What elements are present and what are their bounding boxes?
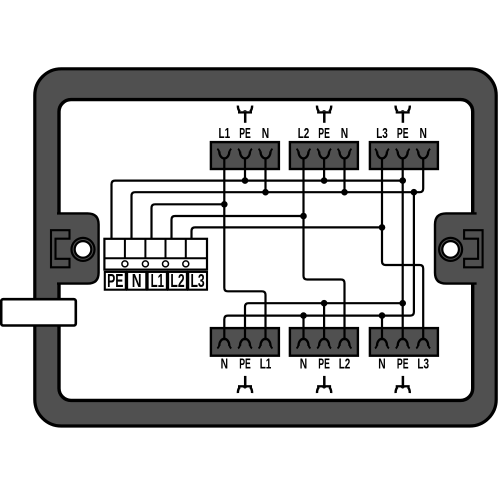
outgoing feeder symbol above block2 bbox=[317, 106, 331, 123]
wire PE stub bottom block2 bbox=[323, 303, 325, 340]
svg-text:L2: L2 bbox=[170, 271, 184, 291]
wire N stub top block1 bbox=[264, 159, 266, 193]
top terminal block 2 (L2 PE N) bbox=[290, 142, 358, 169]
junction L1 bbox=[221, 201, 228, 208]
label bottom block2 N PE L2 bbox=[300, 356, 351, 373]
wire L1 net: riser from input L1 bbox=[152, 204, 225, 240]
outgoing feeder symbol below bottom block1 bbox=[238, 376, 252, 393]
top terminal block 1 (L1 PE N) bbox=[211, 142, 279, 169]
wire PE net: riser from input PE up and across (PE bus) bbox=[112, 181, 403, 240]
outgoing feeder symbol below bottom block3 bbox=[396, 376, 410, 393]
svg-text:L2: L2 bbox=[298, 125, 310, 142]
svg-text:PE: PE bbox=[318, 356, 330, 373]
svg-text:N: N bbox=[378, 356, 385, 373]
label bottom block1 N PE L1 bbox=[221, 356, 272, 373]
wire L2 net: riser from input L2 bbox=[172, 216, 304, 240]
junction PE lower bus block3 bbox=[399, 300, 406, 307]
wire L3 top block3 to bottom block3 with jog bbox=[382, 159, 423, 341]
svg-text:N: N bbox=[420, 125, 427, 142]
wire L3 net: riser from input L3 bbox=[192, 227, 383, 240]
wire L2 top block2 to bottom block2 with jog bbox=[304, 159, 345, 341]
junction N lower bus block3 bbox=[379, 312, 386, 319]
top terminal block 3 (L3 PE N) bbox=[370, 142, 438, 169]
wire N stub bottom block2 bbox=[302, 316, 304, 341]
svg-text:L2: L2 bbox=[339, 356, 351, 373]
svg-text:PE: PE bbox=[397, 356, 409, 373]
input block test ports bbox=[122, 261, 189, 267]
junction N lower bus block2 bbox=[300, 312, 307, 319]
bottom terminal block 2 (N PE L2) bbox=[290, 328, 358, 356]
label top block1 L1 PE N bbox=[219, 125, 270, 142]
svg-text:PE: PE bbox=[239, 356, 251, 373]
junction PE bus block2 bbox=[321, 177, 328, 184]
left cable entry gland bbox=[1, 299, 76, 325]
junction L2 bbox=[300, 213, 307, 220]
junction N bus drop bbox=[411, 189, 418, 196]
svg-text:N: N bbox=[221, 356, 228, 373]
input label box L1 bbox=[148, 271, 167, 291]
wire N stub bottom block3 bbox=[381, 316, 383, 341]
label top block3 L3 PE N bbox=[376, 125, 427, 142]
junction N bus block1 bbox=[262, 189, 269, 196]
junction PE bus block3 bbox=[399, 177, 406, 184]
wire L1 top block1 to bottom block1 with jog bbox=[224, 159, 265, 341]
input label box PE bbox=[105, 271, 126, 291]
outgoing feeder symbol below bottom block2 bbox=[317, 376, 331, 393]
svg-text:N: N bbox=[341, 125, 348, 142]
input label box L3 bbox=[188, 271, 207, 291]
junction N bus block2 bbox=[341, 189, 348, 196]
junction L3 bbox=[379, 224, 386, 231]
wire N drop to lower N bus bbox=[224, 192, 414, 340]
wire PE stub top block2 bbox=[323, 159, 325, 181]
svg-text:PE: PE bbox=[318, 125, 330, 142]
bottom terminal block 1 (N PE L1) bbox=[211, 328, 279, 356]
svg-text:N: N bbox=[262, 125, 269, 142]
junction PE lower bus block2 bbox=[321, 300, 328, 307]
input terminal block body bbox=[104, 239, 207, 270]
wire PE vertical top block3 to bottom block3 bbox=[402, 159, 404, 341]
svg-text:L3: L3 bbox=[417, 356, 429, 373]
right mounting ear with metal insert bbox=[435, 213, 483, 283]
wire N net: riser from input N up and across (N bus) bbox=[132, 159, 424, 241]
svg-text:PE: PE bbox=[397, 125, 409, 142]
svg-text:L1: L1 bbox=[151, 271, 164, 291]
svg-text:PE: PE bbox=[107, 271, 123, 291]
outgoing feeder symbol above block3 bbox=[396, 106, 410, 123]
bottom terminal block 3 (N PE L3) bbox=[370, 328, 438, 356]
junction PE bus block1 bbox=[242, 177, 249, 184]
svg-text:L1: L1 bbox=[219, 125, 231, 142]
wire N stub top block2 bbox=[343, 159, 345, 193]
enclosure outer body bbox=[35, 69, 496, 426]
wire PE lower bus bbox=[245, 303, 403, 340]
enclosure inner cavity bbox=[59, 100, 473, 401]
svg-text:L3: L3 bbox=[376, 125, 388, 142]
left mounting ear with metal insert bbox=[51, 213, 99, 283]
input label box L2 bbox=[168, 271, 187, 291]
svg-text:L3: L3 bbox=[191, 271, 205, 291]
svg-text:N: N bbox=[132, 271, 142, 291]
input label box N bbox=[127, 271, 146, 291]
label top block2 L2 PE N bbox=[298, 125, 348, 142]
outgoing feeder symbol above block1 bbox=[238, 106, 252, 123]
svg-text:N: N bbox=[300, 356, 307, 373]
svg-text:PE: PE bbox=[239, 125, 251, 142]
label bottom block3 N PE L3 bbox=[378, 356, 429, 373]
svg-text:L1: L1 bbox=[260, 356, 272, 373]
wire PE stub top block1 bbox=[244, 159, 246, 181]
